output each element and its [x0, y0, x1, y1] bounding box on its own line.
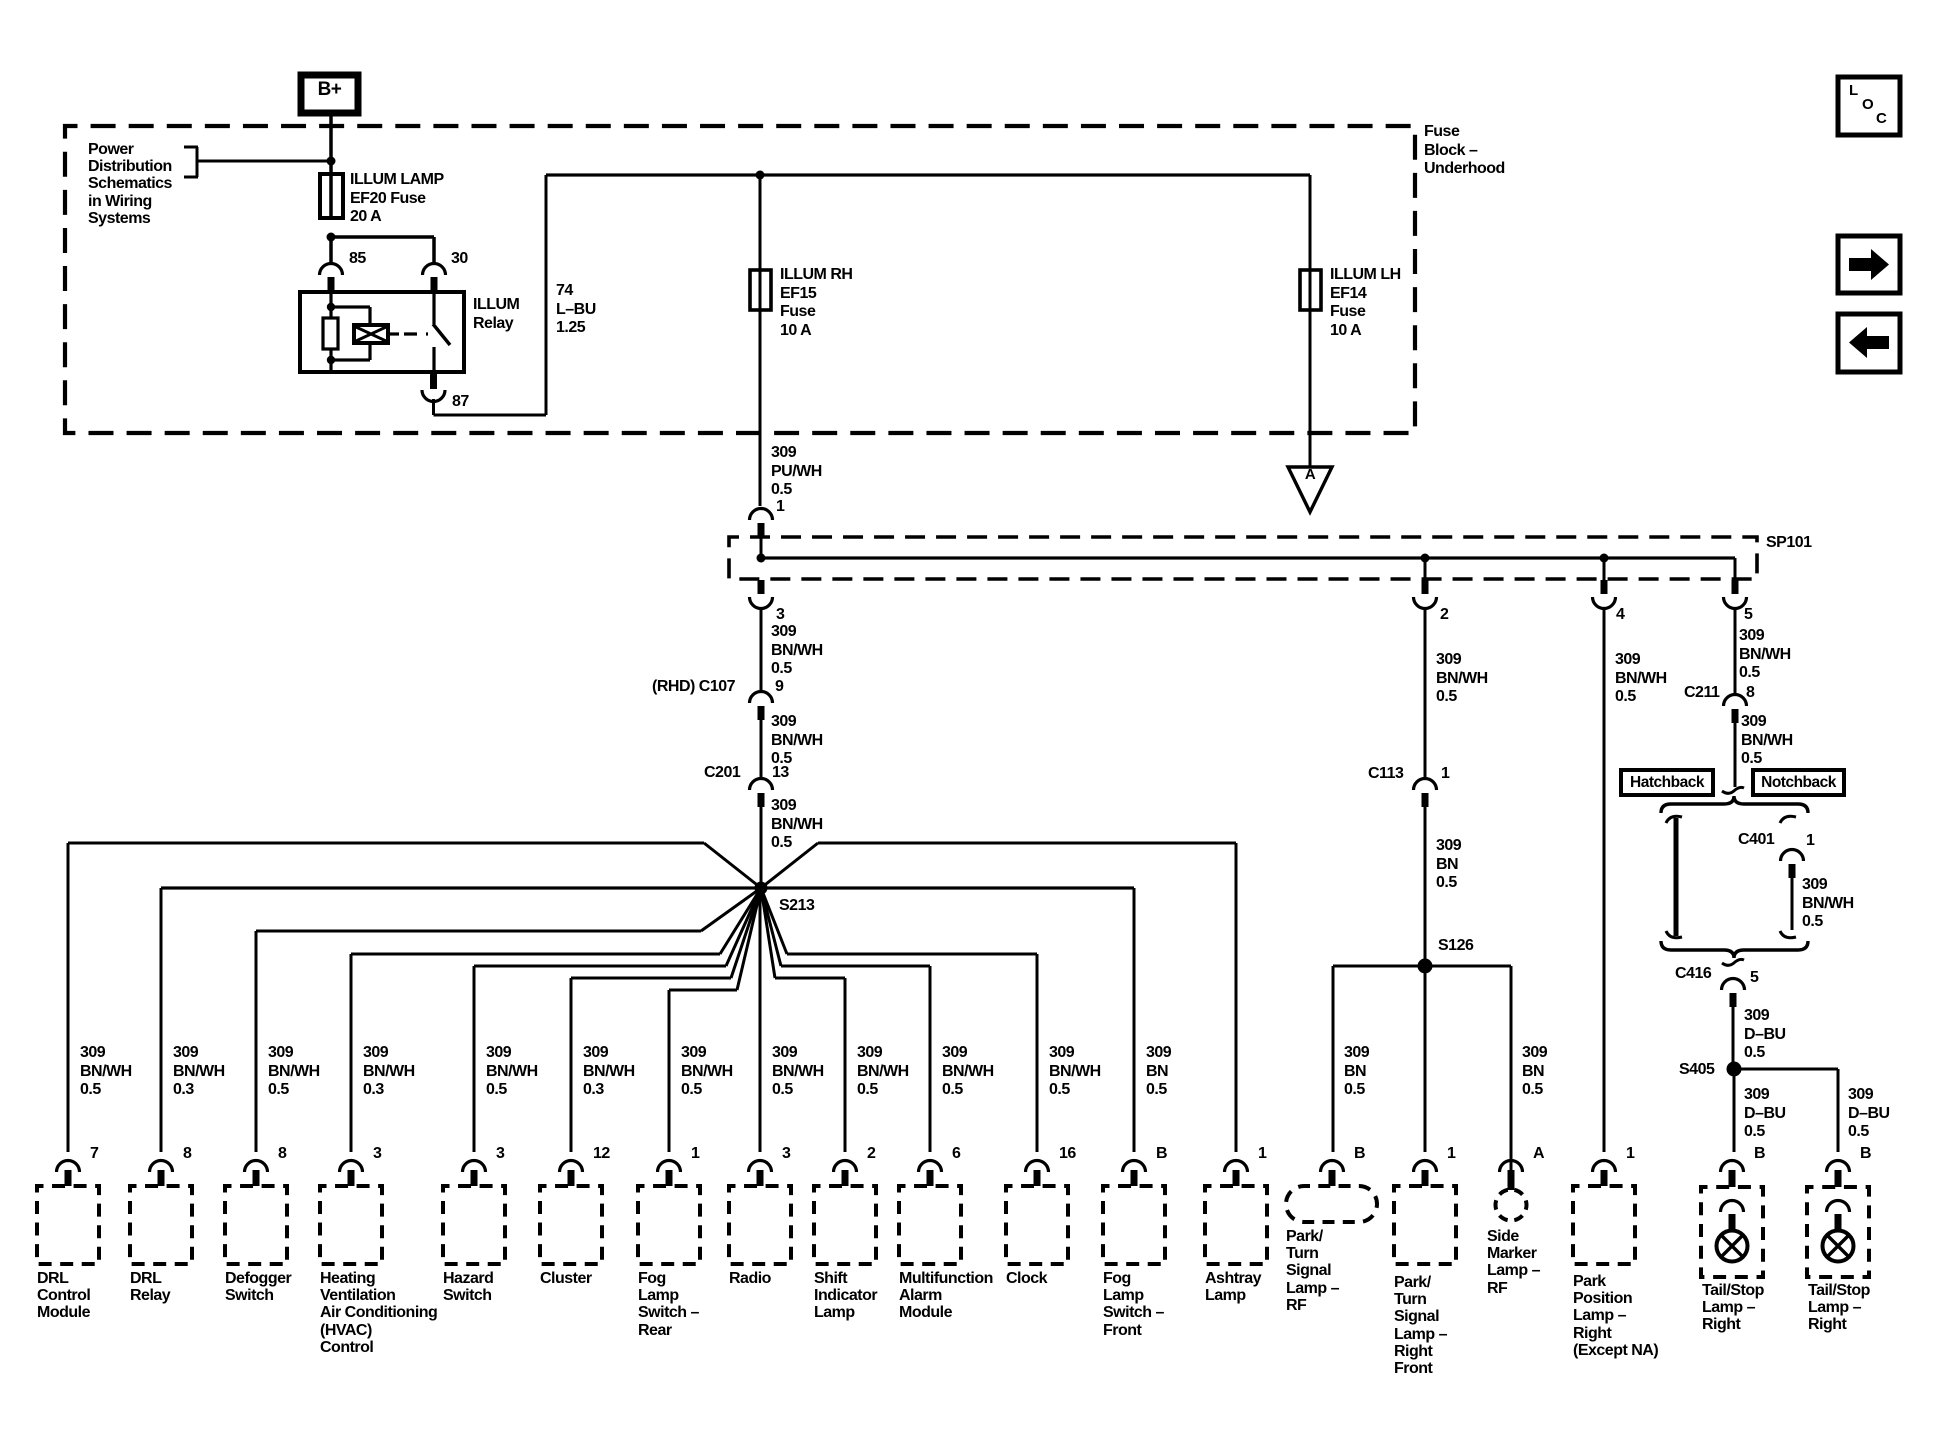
hook hatchback branch top: [1666, 816, 1682, 823]
lamp bulb tail/stop right: [1823, 1231, 1854, 1262]
wire S213 to Ashtray Lamp: [761, 842, 1238, 1153]
connector pin 1 park/turn right front: [1414, 1161, 1437, 1187]
relay coil symbol: [354, 325, 399, 343]
label pin B tail/stop right: [1860, 1145, 1871, 1164]
wire C201 to S213: [760, 807, 763, 888]
brace split top: [1661, 796, 1808, 813]
label pin 1 park/turn right front: [1447, 1145, 1455, 1164]
wire pin2 to C113: [1424, 607, 1427, 779]
label pin 1 SP101 in: [776, 498, 784, 517]
label Notchback: [1753, 774, 1844, 793]
component Side Marker Lamp RF dashed circle: [1496, 1190, 1527, 1221]
wire label 309 BN/WH 0.5 col3: [268, 1044, 320, 1100]
wire coil branch: [331, 305, 372, 361]
hook notchback branch top: [1780, 816, 1796, 823]
label ILLUM LAMP EF20 Fuse 20 A: [350, 171, 444, 227]
wire S213 to Clock: [761, 888, 1039, 1152]
label Multifunction Alarm Module: [899, 1270, 993, 1322]
connector pin 1 park position: [1593, 1161, 1616, 1187]
relay K-ILLUM box: [300, 292, 464, 372]
connector pin 1 into SP101: [750, 509, 773, 539]
icon LOC box: [1838, 77, 1900, 135]
component Fog Lamp Switch – Front dashed box: [1103, 1186, 1165, 1264]
hook wire below brace: [1722, 959, 1744, 965]
label L of LOC: [1849, 82, 1858, 99]
label B+: [301, 81, 358, 100]
wire pin5 to C211: [1734, 607, 1737, 695]
wire to fuse EF14: [1309, 175, 1312, 270]
node SP101 pin2 junction: [1421, 554, 1430, 563]
wire label 309 BN/WH 0.5 pin3: [771, 623, 823, 679]
label pin 8 DRL Relay: [183, 1145, 191, 1164]
label pin 9: [775, 678, 783, 697]
lamp bulb tail/stop left: [1717, 1231, 1748, 1262]
connector C107: [750, 692, 773, 721]
wire C107 to C201: [760, 720, 763, 779]
wire label 309 BN/WH 0.5 pin2: [1436, 651, 1488, 707]
component Radio dashed box: [729, 1186, 791, 1264]
wire label 309 BN/WH 0.5 col5: [486, 1044, 538, 1100]
wire S213 to Heating Ventilation Air Conditioning (HVAC) Control: [350, 888, 762, 1152]
label pin 7 DRL Control Module: [90, 1145, 98, 1164]
wire S213 to Hazard Switch: [473, 888, 762, 1152]
connector pin 1 Ashtray Lamp: [1225, 1161, 1248, 1187]
label SP101: [1766, 534, 1812, 553]
component Fog Lamp Switch – Rear dashed box: [638, 1186, 700, 1264]
wire S126 branches: [1332, 965, 1513, 1191]
hook notchback branch bottom: [1780, 931, 1796, 938]
connector pin 5 out of SP101: [1724, 580, 1747, 609]
node junction at EF15 branch: [756, 171, 765, 180]
label pin 30: [451, 250, 468, 269]
wire label 309 BN/WH 0.3 col4: [363, 1044, 415, 1100]
connector bulb socket right: [1827, 1201, 1850, 1232]
mechanical link dashed: [404, 332, 428, 335]
label Cluster: [540, 1270, 592, 1287]
wire label 309 BN/WH 0.5 C107: [771, 713, 823, 769]
wire C401 down: [1791, 878, 1794, 930]
connector C113: [1414, 779, 1437, 807]
label pin A side marker: [1533, 1145, 1544, 1164]
label Heating Ventilation Air Conditioning (HVAC) Control: [320, 1270, 437, 1356]
label ILLUM LH EF14 Fuse 10 A: [1330, 266, 1401, 340]
connector pin 87 of ILLUM relay: [422, 372, 445, 402]
connector pin B tail/stop left: [1721, 1161, 1744, 1188]
wire label 309 BN/WH 0.5 C401: [1802, 876, 1854, 932]
component Tail/Stop Lamp left dashed box: [1701, 1187, 1763, 1277]
icon prev-page arrow: [1849, 327, 1889, 358]
wire label 309 BN/WH 0.5 C201: [771, 797, 823, 853]
connector pin 30 of ILLUM relay: [423, 264, 446, 293]
connector bulb socket left: [1721, 1201, 1744, 1232]
component Ashtray Lamp dashed box: [1205, 1186, 1267, 1264]
connector pin 12 Cluster: [560, 1161, 583, 1187]
wire label 309 BN/WH 0.5 pin5: [1739, 627, 1791, 683]
label ILLUM RH EF15 Fuse 10 A: [780, 266, 852, 340]
label pin 1 C113: [1441, 765, 1449, 784]
connector pin B park/turn RF: [1321, 1161, 1344, 1187]
fuse EF15 ILLUM RH body: [750, 270, 771, 310]
connector pin 2 Shift Indicator Lamp: [834, 1161, 857, 1187]
hook wire end at brace: [1722, 787, 1744, 793]
label O of LOC: [1862, 96, 1874, 113]
label Clock: [1006, 1270, 1047, 1287]
connector pin 1 Fog Lamp Switch – Rear: [658, 1161, 681, 1187]
wire S213 to DRL Control Module: [67, 842, 762, 1153]
node relay coil bottom junction: [327, 356, 335, 364]
label Radio: [729, 1270, 771, 1287]
connector pin 7 DRL Control Module: [57, 1161, 80, 1187]
icon next-page arrow: [1849, 249, 1889, 280]
wire S213 to Fog Lamp Switch – Front: [761, 886, 1136, 1152]
wire label 309 BN/WH 0.5 below C211: [1741, 713, 1793, 769]
wire label 309 D-BU 0.5 left tail: [1744, 1086, 1786, 1142]
label Fuse Block Underhood: [1424, 123, 1505, 179]
label pin 8 Defogger Switch: [278, 1145, 286, 1164]
label C201: [704, 764, 740, 783]
label pin 87: [452, 393, 469, 412]
label S405: [1679, 1061, 1714, 1080]
wire label 309 BN 0.5 right branch: [1522, 1044, 1547, 1100]
connector pin 85 of ILLUM relay: [320, 264, 343, 293]
splice pack SP101 dashed box: [729, 537, 1757, 579]
wire label 309 D-BU 0.5 C416: [1744, 1007, 1786, 1063]
label Tail/Stop Lamp Right right: [1808, 1282, 1870, 1334]
label Hazard Switch: [443, 1270, 493, 1304]
wire label 309 D-BU 0.5 right tail: [1848, 1086, 1890, 1142]
component Cluster dashed box: [540, 1186, 602, 1264]
connector pin 8 Defogger Switch: [245, 1161, 268, 1187]
wire power-distribution pointer: [198, 160, 331, 163]
label pin 2: [1440, 606, 1448, 625]
wire hatchback branch: [1674, 818, 1679, 936]
wire label 309 BN/WH 0.3 col6: [583, 1044, 635, 1100]
label Ashtray Lamp: [1205, 1270, 1261, 1304]
wire B+ to fuse EF20: [329, 113, 333, 174]
component Clock dashed box: [1006, 1186, 1068, 1264]
component Multifunction Alarm Module dashed box: [899, 1186, 961, 1264]
wire label 309 PU/WH 0.5: [771, 444, 822, 500]
wire resistor bottom: [329, 349, 332, 372]
splice S405: [1727, 1062, 1742, 1077]
wire S405 branches: [1733, 1068, 1840, 1153]
wire label 309 BN/WH 0.5 col10: [942, 1044, 994, 1100]
node junction below EF20: [327, 233, 336, 242]
node junction at B+ wire: [327, 157, 336, 166]
splice S213: [755, 882, 768, 895]
bracket for power distribution note: [184, 146, 199, 179]
label C113: [1368, 765, 1403, 784]
label Shift Indicator Lamp: [814, 1270, 877, 1322]
component Park/Turn Signal Lamp Right Front dashed box: [1394, 1186, 1456, 1264]
label pin 3 Radio: [782, 1145, 790, 1164]
label Tail/Stop Lamp Right left: [1702, 1282, 1764, 1334]
wire label 309 BN/WH 0.3 col2: [173, 1044, 225, 1100]
label Defogger Switch: [225, 1270, 291, 1304]
hook hatchback branch bottom: [1666, 931, 1682, 938]
wire label 309 BN/WH 0.5 col9: [857, 1044, 909, 1100]
connector pin 3 Heating Ventilation Air Conditioning (HVAC) Control: [340, 1161, 363, 1187]
wire label 309 BN/WH 0.5 col7: [681, 1044, 733, 1100]
label Fog Lamp Switch – Rear: [638, 1270, 699, 1339]
wire relay coil feed: [329, 292, 332, 318]
label C211: [1684, 684, 1719, 703]
label pin 4: [1616, 606, 1624, 625]
label pin B tail/stop left: [1754, 1145, 1765, 1164]
page connector triangle A: [1288, 467, 1332, 512]
wire relay 87 output: [432, 175, 548, 417]
hatchback label box: [1621, 770, 1713, 795]
label pin 16 Clock: [1059, 1145, 1076, 1164]
connector C211: [1724, 695, 1747, 724]
connector pin 4 out of SP101: [1593, 580, 1616, 609]
label pin 6 Multifunction Alarm Module: [952, 1145, 960, 1164]
wire label 309 BN 0.5 col12: [1146, 1044, 1171, 1100]
node SP101 pin4 junction: [1600, 554, 1609, 563]
wire S213 to Multifunction Alarm Module: [761, 888, 932, 1152]
label S126: [1438, 937, 1473, 956]
component DRL Control Module dashed box: [37, 1186, 99, 1264]
wire S213 to DRL Relay: [160, 886, 762, 1152]
power node B+ terminal box: [301, 75, 358, 113]
label pin 12 Cluster: [593, 1145, 610, 1164]
connector pin B tail/stop right: [1827, 1161, 1850, 1188]
node relay coil top junction: [327, 303, 335, 311]
wire S213 to Cluster: [570, 888, 762, 1152]
icon prev-page arrow box: [1838, 314, 1900, 372]
connector pin B Fog Lamp Switch – Front: [1123, 1161, 1146, 1187]
wire EF15 down to SP101: [759, 310, 762, 506]
wire bus to illum fuses: [546, 173, 1310, 176]
label Side Marker Lamp RF: [1487, 1228, 1540, 1297]
component Tail/Stop Lamp right dashed box: [1807, 1187, 1869, 1277]
switch relay contact: [432, 292, 450, 372]
wire SP101 drops: [1424, 558, 1606, 580]
label pin B park/turn RF: [1354, 1145, 1365, 1164]
component Park/Turn Signal Lamp RF dashed obround: [1286, 1186, 1377, 1222]
wire label 309 BN 0.5 below C113: [1436, 837, 1461, 893]
wire label 309 BN/WH 0.5 pin4: [1615, 651, 1667, 707]
label pin 1 Ashtray Lamp: [1258, 1145, 1266, 1164]
component Shift Indicator Lamp dashed box: [814, 1186, 876, 1264]
wire C113 to S126: [1424, 807, 1427, 966]
icon next-page arrow box: [1838, 236, 1900, 293]
label Park/Turn Signal Lamp RF: [1286, 1228, 1339, 1314]
label A in triangle: [1297, 466, 1323, 485]
component Hazard Switch dashed box: [443, 1186, 505, 1264]
connector pin 2 out of SP101: [1414, 580, 1437, 609]
label Hatchback: [1621, 774, 1713, 793]
label pin 85: [349, 250, 366, 269]
connector pin 3 Radio: [749, 1161, 772, 1187]
wire C416 to S405: [1732, 1007, 1735, 1069]
wire EF14 down to page connector A: [1309, 310, 1312, 467]
wire SP101 bus: [760, 538, 1737, 580]
brace merge bottom: [1661, 941, 1808, 958]
label ILLUM Relay: [473, 296, 519, 333]
label C416: [1675, 965, 1711, 984]
connector pin 16 Clock: [1026, 1161, 1049, 1187]
label C401: [1738, 831, 1774, 850]
wire S213 to Shift Indicator Lamp: [761, 888, 847, 1152]
node SP101 pin1 junction: [757, 554, 766, 563]
label C of LOC: [1876, 110, 1887, 127]
wire pin3 to C107: [760, 607, 763, 692]
connector pin 3 out of SP101: [750, 580, 773, 609]
fuse EF14 ILLUM LH body: [1300, 270, 1321, 310]
wire label 309 BN/WH 0.5 col8: [772, 1044, 824, 1100]
label pin 3 Hazard Switch: [496, 1145, 504, 1164]
label pin 1 C401: [1806, 832, 1814, 851]
wire S213 to Radio: [759, 888, 762, 1152]
wire EF20 to relay pins: [329, 235, 436, 262]
label Park Position Lamp Right: [1573, 1273, 1658, 1359]
wire S213 to Fog Lamp Switch – Rear: [668, 888, 762, 1152]
connector pin 3 Hazard Switch: [463, 1161, 486, 1187]
label pin 5: [1744, 606, 1752, 625]
wire label 309 BN/WH 0.5 col11: [1049, 1044, 1101, 1100]
component Park Position Lamp dashed box: [1573, 1186, 1635, 1264]
fuse EF20 ILLUM LAMP body: [320, 174, 343, 218]
label pin 5 C416: [1750, 969, 1758, 988]
label DRL Relay: [130, 1270, 170, 1304]
component Heating Ventilation Air Conditioning (HVAC) Control dashed box: [320, 1186, 382, 1264]
fuse block underhood dashed box: [65, 126, 1415, 433]
component Defogger Switch dashed box: [225, 1186, 287, 1264]
label pin 1 park position: [1626, 1145, 1634, 1164]
wire C211 to hatchback brace: [1734, 723, 1737, 787]
label pin 8 C211: [1746, 684, 1754, 703]
notchback label box: [1753, 770, 1844, 795]
label DRL Control Module: [37, 1270, 90, 1322]
label pin 3: [776, 606, 784, 625]
wire pin4 to park position lamp: [1603, 607, 1606, 1152]
label pin 13: [772, 764, 789, 783]
connector C201: [750, 779, 773, 807]
label S213: [779, 897, 814, 916]
component DRL Relay dashed box: [130, 1186, 192, 1264]
note Power Distribution Schematics in Wiring Systems: [88, 141, 172, 227]
label pin B Fog Lamp Switch – Front: [1156, 1145, 1167, 1164]
label Park/Turn Signal Lamp Right Front: [1394, 1274, 1447, 1377]
connector pin 6 Multifunction Alarm Module: [919, 1161, 942, 1187]
connector pin A side marker: [1500, 1161, 1523, 1191]
label (RHD) C107: [652, 678, 735, 697]
label Fog Lamp Switch – Front: [1103, 1270, 1164, 1339]
label pin 3 Heating Ventilation Air Conditioning (HVAC) Control: [373, 1145, 381, 1164]
wire S213 to Defogger Switch: [255, 888, 762, 1152]
wire label 309 BN 0.5 left branch: [1344, 1044, 1369, 1100]
label pin 2 Shift Indicator Lamp: [867, 1145, 875, 1164]
wire label 309 BN/WH 0.5 col1: [80, 1044, 132, 1100]
label pin 1 Fog Lamp Switch – Rear: [691, 1145, 699, 1164]
connector C401: [1781, 850, 1804, 879]
splice S126: [1418, 959, 1433, 974]
wire label 74 L-BU 1.25: [556, 282, 596, 338]
connector pin 8 DRL Relay: [150, 1161, 173, 1187]
wire to fuse EF15: [759, 175, 762, 270]
connector C416: [1722, 979, 1745, 1007]
resistor relay internal: [323, 318, 338, 349]
